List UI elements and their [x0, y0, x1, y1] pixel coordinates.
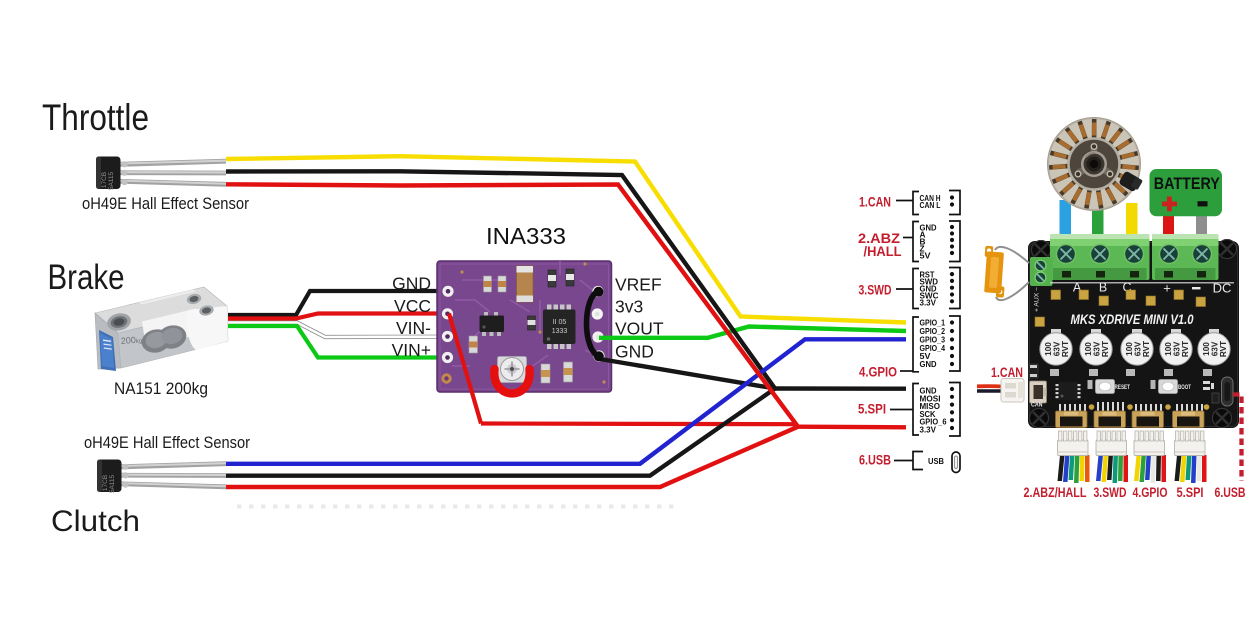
svg-text:1.CAN: 1.CAN: [991, 364, 1023, 380]
pin CAN L: [920, 200, 941, 210]
wire red junction to SPI 3.3V: [798, 425, 906, 430]
terminal block DC: [1152, 234, 1219, 280]
pad VIN- left: [442, 331, 453, 342]
label VREF (INA right): [615, 275, 662, 295]
svg-text:NA151 200kg: NA151 200kg: [114, 379, 208, 398]
pin headers above JST sockets: [1059, 402, 1209, 411]
connector line 1.CAN: [896, 200, 913, 202]
pad VCC left: [442, 308, 453, 319]
svg-text:DC: DC: [1213, 281, 1232, 296]
battery symbol: [1150, 169, 1223, 216]
svg-text:RVT: RVT: [1181, 341, 1190, 357]
svg-text:3.3V: 3.3V: [920, 425, 937, 435]
wire ribbon ABZ/HALL plug: [1058, 455, 1090, 483]
bracket right CAN with pins: [949, 191, 960, 215]
film capacitor on INA board: [517, 266, 534, 302]
hall effect sensor (throttle): [96, 157, 226, 191]
pin USB: [928, 456, 944, 466]
SOIC8 IC on board: [1056, 382, 1081, 400]
red calibration loop at trimpot: [494, 369, 529, 393]
label NA151 200kg: [114, 379, 208, 398]
label oH49E Hall Effect Sensor (clutch): [84, 434, 250, 452]
bracket left SPI: [913, 384, 919, 436]
wire clutch blue to GPIO_3: [226, 339, 906, 464]
connector line 6.USB: [894, 460, 913, 462]
wire red VCC bus to junction: [481, 424, 798, 427]
svg-text:+ AUX −: + AUX −: [1034, 287, 1041, 312]
pin GND (ABZ): [920, 222, 937, 232]
svg-text:B: B: [1099, 281, 1107, 295]
wire throttle red to junction: [226, 184, 798, 426]
label 6.USB (bottom): [1215, 485, 1246, 500]
pin GPIO_6: [920, 417, 947, 427]
svg-text:CAN L: CAN L: [920, 200, 941, 210]
label VOUT (INA right): [615, 319, 664, 339]
bracket right GPIO with pins: [949, 316, 960, 371]
label GND (INA right): [615, 342, 654, 362]
label Throttle: [42, 97, 149, 138]
small fuse component left edge: [1029, 364, 1038, 378]
caps bottom: [541, 364, 550, 383]
svg-text:RVT: RVT: [1219, 341, 1228, 357]
svg-text:4.GPIO: 4.GPIO: [859, 364, 897, 380]
label GND (INA left): [392, 274, 431, 294]
capacitor C4: [1160, 329, 1192, 365]
solder pads under caps: [1050, 369, 1212, 376]
svg-text:VCC: VCC: [394, 296, 431, 316]
capacitor C3: [1121, 329, 1153, 365]
bracket left GPIO: [913, 317, 919, 372]
jumper wire VREF to GND (black arc): [587, 287, 604, 362]
svg-text:6.USB: 6.USB: [859, 452, 891, 468]
svg-text:VREF: VREF: [615, 275, 662, 295]
faint watermark dashes: [237, 505, 675, 509]
label 1.CAN: [859, 194, 891, 210]
hall effect sensor (clutch): [97, 460, 226, 494]
silk label A: [1073, 281, 1082, 295]
svg-text:VIN-: VIN-: [396, 318, 431, 338]
svg-text:VIN+: VIN+: [392, 340, 431, 360]
connector line 2.ABZ: [903, 237, 913, 239]
AUX terminal block: [1030, 257, 1053, 286]
svg-text:5.SPI: 5.SPI: [1177, 485, 1204, 500]
label INA333: [486, 223, 566, 249]
motor phase wire yellow: [1126, 203, 1138, 238]
silk label +: [1163, 281, 1171, 296]
svg-text:GND: GND: [920, 359, 937, 369]
pad GND right: [593, 350, 604, 361]
svg-text:MKS XDRIVE MINI V1.0: MKS XDRIVE MINI V1.0: [1071, 312, 1194, 327]
svg-text:3.SWD: 3.SWD: [859, 282, 892, 298]
small part mid: [528, 316, 536, 330]
wire ribbon SPI plug: [1175, 455, 1207, 483]
gold pads row: [1035, 290, 1206, 327]
svg-text:RVT: RVT: [1142, 341, 1151, 357]
RESET button: [1088, 380, 1131, 394]
wire ribbon GPIO plug: [1134, 455, 1166, 483]
JST socket SWD: [1094, 411, 1126, 428]
svg-text:3.3V: 3.3V: [920, 297, 937, 307]
silk line under terminal blocks: [1050, 282, 1234, 284]
pad VOUT right: [592, 331, 603, 342]
pin GND (SWD): [920, 283, 937, 293]
connector line 4.GPIO: [900, 370, 913, 372]
bracket left SWD: [913, 269, 919, 309]
svg-text:RVT: RVT: [1101, 341, 1110, 357]
bracket left ABZ: [913, 222, 919, 262]
label 4.GPIO (bottom): [1133, 485, 1168, 500]
silk label C: [1122, 281, 1131, 295]
JST plug GPIO: [1134, 431, 1165, 456]
svg-text:oH49E Hall Effect Sensor: oH49E Hall Effect Sensor: [84, 434, 250, 452]
JST plug SPI: [1175, 431, 1206, 456]
label VIN- (INA left): [396, 318, 431, 338]
JST plug ABZ/HALL: [1058, 431, 1089, 456]
wire brake green to INA VIN+: [228, 326, 446, 358]
wire INA VCC red down (over board): [449, 314, 481, 424]
svg-text:3.SWD: 3.SWD: [1094, 485, 1127, 500]
svg-text:RESET: RESET: [1115, 385, 1131, 391]
bracket right ABZ with pins: [949, 221, 960, 262]
label 5.SPI: [858, 401, 886, 417]
pin GPIO_4: [920, 343, 946, 353]
load cell NA151 (brake): [95, 287, 228, 371]
pad VREF right: [592, 286, 603, 297]
bracket right SPI with pins: [949, 383, 960, 437]
svg-text:5A115: 5A115: [109, 474, 116, 493]
JST plug SWD: [1096, 431, 1127, 456]
BLDC motor M1: [1048, 118, 1143, 211]
svg-text:II 05: II 05: [553, 319, 567, 326]
wire brake red to INA VCC: [228, 314, 449, 319]
svg-text:oH49E Hall Effect Sensor: oH49E Hall Effect Sensor: [82, 195, 249, 213]
wire VOUT green to GPIO_2: [708, 327, 906, 338]
svg-text:Brake: Brake: [48, 258, 125, 297]
connector line 5.SPI: [890, 409, 913, 411]
spare pad bottom-left: [441, 373, 451, 383]
pin 5V (ABZ): [920, 250, 931, 260]
svg-text:BATTERY: BATTERY: [1154, 174, 1221, 193]
label 5.SPI (bottom): [1177, 485, 1204, 500]
wire brake black to INA GND: [228, 291, 446, 315]
pin 5V (GPIO): [920, 351, 931, 361]
trimpot RV1: [498, 357, 527, 383]
pin SCK: [920, 409, 936, 419]
svg-text:GND: GND: [392, 274, 431, 294]
svg-text:5.SPI: 5.SPI: [858, 401, 886, 417]
MKS XDRIVE board PCB: [1028, 241, 1239, 428]
pin 3.3V (SPI): [920, 425, 937, 435]
svg-text:5A115: 5A115: [108, 171, 115, 190]
pin A: [920, 230, 926, 240]
wire clutch red to junction: [226, 427, 798, 487]
bracket left USB: [913, 452, 923, 470]
wire clutch black to junction: [226, 389, 775, 476]
CAN socket on board: [1030, 381, 1047, 409]
JST socket ABZ/HALL: [1056, 411, 1088, 428]
svg-text:/HALL: /HALL: [864, 243, 902, 259]
label 3v3 (INA right): [615, 297, 643, 317]
silk label -: [1192, 287, 1201, 289]
svg-text:BOOT: BOOT: [1178, 385, 1191, 391]
motor phase wire blue: [1060, 200, 1072, 238]
INA333 breakout board U1: [437, 260, 612, 392]
terminal block ABC: [1050, 234, 1150, 280]
USB-C port on board: [1212, 377, 1233, 406]
svg-text:5V: 5V: [920, 250, 931, 260]
silk label +AUX-: [1034, 287, 1041, 312]
pin GPIO_3: [920, 335, 946, 345]
resistor mid-left: [469, 336, 478, 353]
pin SWD: [920, 276, 939, 286]
label Brake: [48, 258, 125, 297]
svg-text:RVT: RVT: [1061, 341, 1070, 357]
wire throttle black to junction: [226, 171, 775, 388]
battery wire red: [1163, 215, 1174, 238]
svg-text:VOUT: VOUT: [615, 319, 664, 339]
svg-text:+: +: [1163, 281, 1171, 296]
pin GND (SPI): [920, 386, 937, 396]
svg-text:INA333: INA333: [486, 223, 566, 249]
label 2.ABZ/HALL (bottom): [1024, 485, 1087, 500]
label 6.USB: [859, 452, 891, 468]
svg-text:Throttle: Throttle: [42, 97, 149, 138]
pin MOSI: [920, 393, 941, 403]
label 4.GPIO: [859, 364, 897, 380]
label 3.SWD: [859, 282, 892, 298]
corner screw top-right: [1218, 240, 1237, 259]
CAN plug with wires: [977, 379, 1024, 403]
resistors top-right: [548, 270, 556, 287]
JST socket SPI: [1173, 411, 1205, 428]
label 2.ABZ/HALL: [858, 230, 902, 259]
power resistor R1: [982, 246, 1029, 300]
svg-text:2.ABZ/HALL: 2.ABZ/HALL: [1024, 485, 1087, 500]
pin 3.3V (SWD): [920, 297, 937, 307]
svg-text:6.USB: 6.USB: [1215, 485, 1246, 500]
pin RST: [920, 269, 935, 279]
label 3.SWD (bottom): [1094, 485, 1127, 500]
BOOT button: [1151, 380, 1215, 394]
pad VIN+ left: [442, 352, 453, 363]
pin Z: [920, 243, 925, 253]
wire brake white to INA VIN-: [228, 323, 446, 338]
wire ribbon SWD plug: [1096, 455, 1128, 483]
pin GPIO_1: [920, 318, 946, 328]
SOT23 op-amp: [484, 312, 488, 317]
svg-text:1333: 1333: [552, 328, 568, 335]
wire INA GND right to junction: [640, 366, 775, 389]
bracket left CAN: [913, 192, 919, 215]
capacitor C5: [1198, 329, 1230, 365]
svg-text:Clutch: Clutch: [51, 505, 140, 538]
svg-text:17CB: 17CB: [101, 172, 108, 188]
label oH49E Hall Effect Sensor (throttle): [82, 195, 249, 213]
motor phase wire green: [1092, 205, 1104, 238]
capacitor C1: [1040, 329, 1072, 365]
INA333 IC (MSOP8): [547, 305, 552, 312]
battery wire gray: [1196, 215, 1207, 238]
svg-text:GND: GND: [615, 342, 654, 362]
label Clutch: [51, 505, 140, 538]
svg-text:CAN: CAN: [1031, 402, 1043, 409]
pin GND (GPIO): [920, 359, 937, 369]
svg-text:17CB: 17CB: [102, 475, 109, 491]
capacitor C2: [1080, 329, 1112, 365]
wire throttle yellow to GPIO_1: [226, 156, 906, 322]
USB-C connector icon: [952, 452, 960, 473]
bracket right SWD with pins: [949, 268, 960, 309]
pin SWC: [920, 290, 939, 300]
label VCC (INA left): [394, 296, 431, 316]
wire VOUT green from pad (over board): [599, 336, 709, 340]
JST socket GPIO: [1132, 411, 1164, 428]
label VIN+ (INA left): [392, 340, 431, 360]
svg-text:USB: USB: [928, 456, 944, 466]
pin CAN H: [920, 193, 941, 203]
corner screw bottom-left: [1030, 409, 1049, 428]
connector line 3.SWD: [896, 288, 913, 290]
svg-text:1.CAN: 1.CAN: [859, 194, 891, 210]
wire INA GND right from pad (over board): [600, 359, 641, 366]
silk label DC: [1213, 281, 1232, 296]
corner screw top-left: [1032, 241, 1051, 260]
pin MISO: [920, 401, 941, 411]
pad 3v3 right: [592, 308, 603, 319]
pin B: [920, 237, 926, 247]
wire black junction to SPI GND: [775, 386, 906, 391]
pin GPIO_2: [920, 326, 946, 336]
dashed red line USB to 6.USB label: [1233, 395, 1242, 482]
silk label MKS XDRIVE MINI V1.0: [1071, 312, 1194, 327]
label 1.CAN (board): [991, 364, 1023, 380]
corner screw bottom-right: [1213, 409, 1232, 428]
svg-text:4.GPIO: 4.GPIO: [1133, 485, 1168, 500]
svg-text:3v3: 3v3: [615, 297, 643, 317]
pad GND left: [442, 286, 453, 297]
resistor pair top-left: [484, 276, 492, 292]
silk label B: [1099, 281, 1107, 295]
